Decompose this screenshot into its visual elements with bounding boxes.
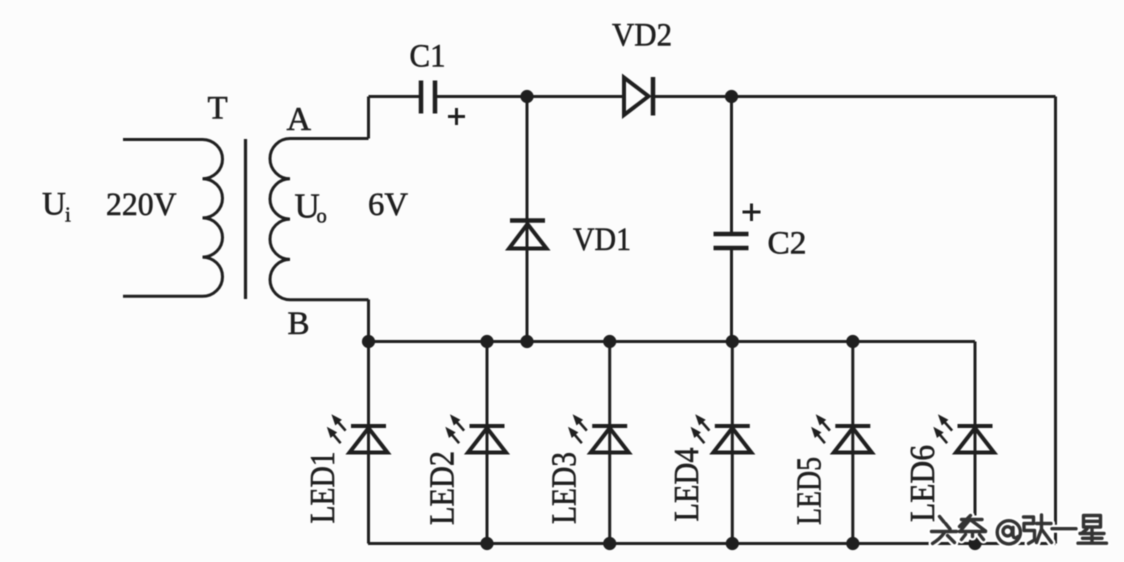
LED LED5 — [811, 414, 872, 452]
node bus VD1 junction — [520, 335, 533, 348]
node bus LED5 junction — [846, 335, 859, 348]
svg-text:VD2: VD2 — [612, 18, 672, 54]
LED LED4 — [691, 414, 752, 452]
wire from B down to LED bus — [367, 300, 370, 342]
node bottom LED5 junction — [846, 537, 859, 550]
transformer T secondary winding — [270, 139, 369, 300]
wire C2 branch lower — [730, 249, 733, 342]
svg-text:LED6: LED6 — [903, 445, 942, 522]
node top rail VD1 junction — [520, 90, 533, 103]
svg-text:LED2: LED2 — [423, 451, 462, 525]
node bus LED3 junction — [603, 335, 616, 348]
watermark casing — [932, 515, 1107, 544]
wire LED2 column — [486, 342, 489, 544]
svg-text:6V: 6V — [368, 187, 408, 223]
svg-text:LED4: LED4 — [667, 448, 706, 522]
diode VD2 — [624, 77, 653, 116]
node bottom LED4 junction — [726, 537, 739, 550]
capacitor C2 — [714, 204, 761, 249]
LED LED3 — [568, 414, 629, 452]
wire right edge — [1054, 97, 1057, 544]
wire top rail C1 to VD2 — [437, 95, 624, 98]
svg-text:i: i — [65, 203, 71, 227]
wire LED bus — [369, 340, 976, 343]
node bus C2 junction — [726, 335, 739, 348]
wire LED1 column — [367, 342, 370, 544]
wire bottom rail — [368, 542, 1056, 545]
node bottom LED2 junction — [480, 537, 493, 550]
wire LED3 column — [608, 342, 611, 544]
label Ui — [42, 187, 71, 227]
svg-text:LED5: LED5 — [790, 457, 829, 525]
node bus B junction — [362, 335, 375, 348]
transformer T core — [244, 139, 247, 299]
wire top rail left segment — [369, 95, 420, 98]
svg-text:LED3: LED3 — [545, 452, 584, 524]
svg-text:C1: C1 — [410, 39, 446, 75]
svg-text:VD1: VD1 — [573, 222, 631, 258]
svg-text:220V: 220V — [106, 187, 177, 223]
LED LED6 — [933, 414, 994, 452]
wire VD1 branch — [526, 97, 529, 342]
label Uo — [295, 187, 327, 228]
svg-text:A: A — [287, 101, 312, 138]
wire C2 branch upper — [730, 97, 733, 234]
wire LED5 column — [851, 342, 854, 544]
LED LED1 — [327, 414, 388, 452]
svg-text:T: T — [208, 90, 228, 126]
wire LED6 column — [974, 342, 977, 544]
node top rail C2 junction — [725, 90, 738, 103]
transformer T primary winding — [123, 140, 223, 297]
wire top rail VD2 to right corner — [653, 95, 1056, 98]
node bottom LED6 junction — [968, 537, 981, 550]
diode VD1 — [509, 221, 547, 249]
watermark text: toutiao @zhang-yi-xing — [932, 515, 1107, 544]
svg-text:o: o — [317, 205, 327, 227]
wire LED4 column — [731, 342, 734, 544]
svg-text:B: B — [288, 306, 310, 342]
node bus LED2 junction — [480, 335, 493, 348]
node bottom LED3 junction — [603, 537, 616, 550]
svg-text:LED1: LED1 — [303, 452, 342, 524]
wire from A up to top rail — [367, 97, 370, 139]
svg-text:C2: C2 — [768, 226, 807, 262]
LED LED2 — [445, 414, 506, 452]
svg-text:U: U — [42, 187, 66, 223]
capacitor C1 — [421, 81, 465, 126]
